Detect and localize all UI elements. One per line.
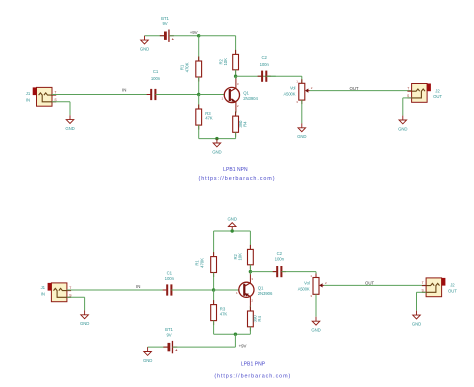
svg-text:10K: 10K — [223, 58, 228, 66]
wire J2 sleeve down — [402, 98, 404, 116]
wire R1 to base node — [213, 273, 215, 291]
svg-text:OUT: OUT — [349, 86, 358, 91]
ground (RV1) — [297, 123, 306, 139]
svg-text:470K: 470K — [185, 62, 190, 72]
svg-text:2N3904: 2N3904 — [243, 96, 258, 101]
junction base node (PNP) — [212, 288, 215, 291]
svg-text:GND: GND — [143, 358, 152, 363]
resistor R4 390 — [233, 112, 248, 137]
wire rail to R2 — [249, 231, 251, 249]
ground (battery BT1 top) — [140, 36, 149, 52]
svg-text:OUT: OUT — [448, 288, 457, 293]
wire Q1 emitter down (PNP) — [249, 306, 251, 311]
svg-text:C1: C1 — [153, 69, 159, 74]
connector J1 audio jack IN — [26, 87, 58, 106]
connector J2 audio jack OUT (PNP) — [422, 278, 458, 297]
svg-text:LPB1 PNP: LPB1 PNP — [241, 361, 266, 367]
wire lower rail — [199, 138, 236, 140]
svg-text:J2: J2 — [450, 282, 455, 287]
wire J1 sleeve (PNP) — [67, 296, 85, 298]
svg-text:A500K: A500K — [283, 92, 295, 97]
svg-text:R4: R4 — [257, 316, 262, 322]
svg-text:470K: 470K — [200, 258, 205, 268]
wire J2 sleeve (PNP) — [417, 291, 427, 293]
wire battery to +9V node — [169, 35, 199, 37]
resistor R4 390 (PNP) — [248, 307, 263, 332]
svg-text:T: T — [54, 91, 56, 95]
svg-text:T: T — [422, 281, 424, 285]
svg-text:100n: 100n — [260, 62, 270, 67]
svg-text:J1: J1 — [26, 91, 31, 96]
wire R3 to lower rail (PNP) — [213, 321, 215, 335]
ground (RV1 PNP) — [311, 317, 320, 333]
wire rail to R2 — [235, 36, 237, 55]
ground (battery PNP) — [143, 347, 152, 363]
wire base node to Q1 base — [199, 94, 229, 96]
junction collector node — [234, 75, 237, 78]
svg-text:C1: C1 — [167, 271, 173, 276]
wire J1 sleeve — [52, 101, 70, 103]
resistor R3 47K (PNP) — [211, 300, 228, 325]
wire C1 to base node — [156, 94, 199, 96]
svg-text:GND: GND — [80, 321, 89, 326]
ground (J2 PNP) — [412, 311, 421, 327]
svg-text:Vol: Vol — [304, 281, 310, 286]
svg-text:GND: GND — [412, 321, 421, 326]
capacitor C1 100n — [147, 69, 161, 100]
wire RV1 wiper to J2 (PNP) — [324, 284, 426, 286]
resistor R2 10K — [218, 50, 238, 74]
wire J1 tip to C1 — [52, 94, 151, 96]
wire R2 to collector node — [249, 265, 251, 272]
potentiometer RV1 Vol A500K — [283, 79, 312, 104]
wire C2 to corner (PNP) — [281, 271, 316, 273]
wire RV1 wiper to J2 — [310, 90, 412, 92]
ground (top rail, bottom circuit) — [228, 216, 237, 231]
wire R4 to lower rail — [235, 132, 237, 138]
svg-text:GND: GND — [65, 126, 74, 131]
svg-text:47K: 47K — [205, 116, 213, 121]
svg-text:T: T — [407, 87, 409, 91]
svg-text:GND: GND — [297, 134, 306, 139]
junction GND rail — [231, 229, 234, 232]
wire collector node to C2 — [236, 75, 276, 77]
wire rail down to +9V — [234, 334, 236, 347]
svg-text:IN: IN — [122, 87, 126, 92]
wire GND to battery (PNP) — [148, 346, 168, 348]
wire +9V rail to R2 — [199, 35, 236, 37]
svg-text:BT1: BT1 — [165, 327, 173, 332]
wire +9V to R1 — [198, 36, 200, 61]
svg-text:Vol: Vol — [290, 86, 296, 91]
svg-text:9V: 9V — [162, 21, 167, 26]
junction lower rail GND — [215, 137, 218, 140]
capacitor C2 100n — [258, 55, 271, 82]
svg-text:GND: GND — [311, 328, 320, 333]
connector J1 audio jack IN (PNP) — [41, 283, 73, 302]
wire R4 to lower rail (PNP) — [249, 327, 251, 334]
svg-text:C2: C2 — [262, 55, 268, 60]
transistor Q1 2N3906 — [236, 272, 273, 307]
battery BT1 9V — [160, 16, 175, 42]
resistor R1 470K — [180, 57, 202, 82]
wire J2 sleeve — [403, 97, 412, 99]
wire R3 to lower rail — [198, 125, 200, 139]
svg-text:+9V: +9V — [190, 30, 198, 35]
junction lower rail (PNP) — [234, 333, 237, 336]
svg-text:Q1: Q1 — [258, 285, 264, 290]
svg-text:J1: J1 — [41, 285, 46, 290]
junction collector node (PNP) — [249, 270, 252, 273]
wire rail to R1 — [213, 231, 215, 257]
ground (emitter rail) — [212, 139, 221, 155]
wire GND to battery BT1 — [145, 35, 165, 37]
capacitor C2 100n (PNP) — [273, 251, 286, 277]
svg-text:IN: IN — [41, 292, 45, 297]
wire Q1 emitter down — [235, 111, 237, 116]
svg-text:GND: GND — [140, 46, 149, 51]
svg-text:100n: 100n — [275, 256, 285, 261]
svg-text:10K: 10K — [238, 253, 243, 261]
svg-text:Q1: Q1 — [243, 91, 249, 96]
wire R2 to collector node — [235, 70, 237, 76]
svg-text:BT1: BT1 — [161, 16, 169, 21]
svg-text:(https://berbarach.com): (https://berbarach.com) — [214, 373, 291, 379]
wire C2 to corner — [266, 75, 302, 77]
svg-text:IN: IN — [26, 97, 30, 102]
svg-text:47K: 47K — [220, 311, 228, 316]
wire corner down to RV1 — [301, 76, 303, 83]
svg-text:100n: 100n — [165, 276, 175, 281]
svg-text:J2: J2 — [435, 88, 440, 93]
svg-text:OUT: OUT — [365, 281, 374, 286]
resistor R2 10K (PNP) — [233, 245, 253, 269]
wire base node to R3 — [198, 95, 200, 110]
connector J2 audio jack OUT — [407, 84, 442, 103]
ground (J2) — [398, 116, 407, 132]
wire base node to R3 (PNP) — [213, 290, 215, 305]
svg-text:GND: GND — [398, 126, 407, 131]
wire J1 sleeve down (PNP) — [84, 297, 86, 310]
wire base node to Q1 base (PNP) — [214, 289, 244, 291]
wire battery to +9V (PNP) — [173, 346, 236, 348]
svg-text:(https://berbarach.com): (https://berbarach.com) — [199, 176, 276, 182]
potentiometer RV1 Vol A500K (PNP) — [298, 274, 327, 299]
svg-text:C2: C2 — [277, 251, 283, 256]
svg-text:R4: R4 — [242, 121, 247, 127]
svg-text:9V: 9V — [166, 333, 171, 338]
wire Q1 collector up (PNP) — [249, 272, 251, 275]
svg-text:2N3906: 2N3906 — [258, 291, 273, 296]
resistor R1 470K (PNP) — [195, 252, 217, 277]
svg-text:+9V: +9V — [239, 344, 247, 349]
svg-text:OUT: OUT — [433, 94, 442, 99]
wire GND rail — [214, 230, 251, 232]
capacitor C1 100n (PNP) — [163, 271, 176, 296]
wire RV1 pin3 to ground — [301, 100, 303, 123]
svg-text:A500K: A500K — [298, 287, 310, 292]
wire J1 sleeve down — [69, 102, 71, 115]
wire J2 sleeve down (PNP) — [416, 292, 418, 310]
wire collector node to C2 (PNP) — [250, 271, 277, 273]
ground (J1) — [65, 115, 74, 131]
battery BT1 9V (PNP) — [163, 327, 178, 353]
wire lower rail (PNP) — [214, 333, 251, 335]
ground (J1 PNP) — [80, 310, 89, 326]
junction base node — [197, 93, 200, 96]
resistor R3 47K — [196, 105, 213, 130]
junction +9V node — [197, 34, 200, 37]
svg-text:LPB1 NPN: LPB1 NPN — [223, 167, 248, 173]
svg-text:GND: GND — [228, 216, 237, 221]
wire J1 tip to C1 (PNP) — [67, 289, 167, 291]
wire R1 to base node — [198, 77, 200, 95]
svg-text:GND: GND — [212, 149, 221, 154]
wire Q1 collector up — [235, 76, 237, 79]
svg-text:IN: IN — [136, 284, 140, 289]
svg-text:100n: 100n — [151, 76, 161, 81]
wire RV1 pin to ground (PNP) — [315, 294, 317, 317]
svg-text:T: T — [69, 286, 71, 290]
transistor Q1 2N3904 — [222, 78, 259, 113]
wire corner down to RV1 (PNP) — [315, 272, 317, 278]
wire C1 to base node (PNP) — [171, 289, 213, 291]
